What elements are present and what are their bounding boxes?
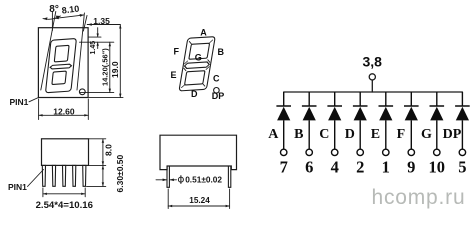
svg-text:A: A bbox=[268, 127, 279, 142]
svg-text:A: A bbox=[200, 28, 207, 38]
svg-text:0.51±0.02: 0.51±0.02 bbox=[185, 175, 222, 185]
svg-text:8.10: 8.10 bbox=[61, 4, 80, 16]
svg-text:G: G bbox=[195, 53, 202, 63]
svg-text:1: 1 bbox=[382, 158, 390, 177]
svg-text:9: 9 bbox=[407, 158, 415, 177]
svg-text:4: 4 bbox=[331, 158, 339, 177]
svg-text:15.24: 15.24 bbox=[189, 196, 210, 205]
svg-text:C: C bbox=[213, 74, 220, 84]
svg-text:B: B bbox=[294, 127, 303, 142]
svg-text:1.45: 1.45 bbox=[90, 41, 97, 55]
svg-text:B: B bbox=[218, 47, 225, 57]
svg-text:C: C bbox=[319, 127, 329, 142]
svg-text:3,8: 3,8 bbox=[362, 53, 382, 69]
svg-text:14.20(.56"): 14.20(.56") bbox=[101, 48, 110, 86]
svg-text:6.30±0.50: 6.30±0.50 bbox=[115, 154, 125, 192]
svg-text:E: E bbox=[371, 127, 380, 142]
svg-text:12.60: 12.60 bbox=[53, 107, 75, 117]
svg-text:D: D bbox=[345, 127, 355, 142]
svg-text:G: G bbox=[421, 127, 432, 142]
svg-text:6: 6 bbox=[305, 158, 313, 177]
svg-text:F: F bbox=[174, 47, 180, 57]
svg-text:F: F bbox=[397, 127, 406, 142]
svg-text:5: 5 bbox=[458, 158, 466, 177]
svg-text:19.0: 19.0 bbox=[110, 61, 120, 78]
svg-text:DP: DP bbox=[443, 127, 462, 142]
svg-text:PIN1: PIN1 bbox=[8, 182, 27, 192]
svg-text:2: 2 bbox=[356, 158, 364, 177]
svg-text:10: 10 bbox=[429, 158, 446, 177]
svg-text:DP: DP bbox=[212, 91, 225, 101]
svg-text:hcomp.ru: hcomp.ru bbox=[372, 186, 466, 209]
svg-text:PIN1: PIN1 bbox=[10, 97, 29, 107]
svg-text:2.54*4=10.16: 2.54*4=10.16 bbox=[36, 200, 93, 211]
svg-text:E: E bbox=[171, 70, 177, 80]
svg-text:7: 7 bbox=[280, 158, 288, 177]
svg-text:8°: 8° bbox=[49, 4, 59, 15]
svg-text:D: D bbox=[191, 89, 198, 99]
svg-text:1.35: 1.35 bbox=[93, 16, 110, 26]
svg-text:8.0: 8.0 bbox=[103, 144, 113, 156]
